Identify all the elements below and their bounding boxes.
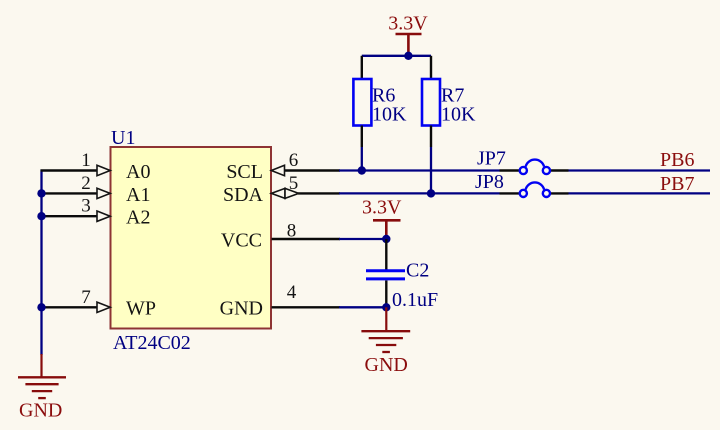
ground GND (left): bar 1 — [18, 376, 66, 378]
U1 pin 5 bidirectional arrowhead — [271, 188, 285, 198]
wire: pin1 horizontal segment — [41, 169, 99, 171]
wire: pin7 horizontal segment — [42, 306, 99, 308]
svg-text:0.1uF: 0.1uF — [392, 289, 438, 311]
ground GND (middle): red stem — [385, 307, 387, 331]
op-amp U1 body: AT24C02 IC rectangle — [111, 147, 272, 329]
svg-text:PB6: PB6 — [660, 149, 694, 171]
svg-text:2: 2 — [81, 173, 91, 194]
jumper JP7 right lead — [550, 169, 569, 171]
U1 pin 2 arrowhead (input) — [97, 188, 110, 198]
jumper JP7 left lead — [500, 169, 521, 171]
junction dot at node WP/pin7 on left bus — [37, 303, 45, 311]
ground GND (middle): bar 3 — [376, 344, 396, 346]
svg-text:7: 7 — [81, 287, 91, 308]
power 3.3V (VCC): bar symbol — [373, 219, 401, 222]
wire: SDA net horizontal from pin5 to JP8 — [339, 192, 500, 194]
jumper JP8 left lead — [500, 192, 521, 194]
svg-text:5: 5 — [289, 173, 299, 194]
power 3.3V (top): stem — [407, 34, 410, 56]
jumper JP7 right pin circle — [543, 167, 550, 174]
ground GND (left): red stem — [40, 354, 42, 377]
wire: left vertical bus from pin1 corner down to GND stem — [40, 170, 42, 356]
U1 pin 7 arrowhead (input) — [97, 302, 110, 312]
ground GND (left): bar 4 — [38, 397, 46, 399]
svg-text:A1: A1 — [126, 184, 150, 206]
ground GND (left): bar 3 — [32, 390, 52, 392]
svg-text:C2: C2 — [406, 260, 429, 282]
svg-text:10K: 10K — [441, 104, 476, 126]
svg-text:SDA: SDA — [223, 184, 264, 206]
wire: VCC net from pin8 to 3.3V node — [339, 238, 386, 240]
jumper JP8 right lead — [550, 192, 569, 194]
svg-text:A2: A2 — [126, 207, 150, 229]
wire: R6 bottom lead — [361, 126, 363, 148]
wire: SCL net horizontal from pin6 to JP7 — [339, 169, 500, 171]
svg-text:AT24C02: AT24C02 — [113, 332, 191, 354]
svg-text:JP8: JP8 — [475, 171, 504, 193]
power 3.3V (VCC): stem — [385, 220, 388, 239]
junction dot at SDA/R7 node — [427, 189, 435, 197]
svg-text:8: 8 — [287, 221, 297, 242]
svg-text:4: 4 — [287, 282, 297, 303]
svg-text:6: 6 — [289, 150, 299, 171]
wire: R7 top lead — [430, 56, 432, 80]
wire: pin3 horizontal segment — [42, 215, 99, 217]
svg-text:3: 3 — [81, 196, 91, 217]
wire: R7 to SDA net vertical (crosses SCL) — [430, 147, 432, 193]
junction dot at node A2/pin3 on left bus — [37, 212, 45, 220]
junction dot at 3.3V / resistor-top node — [404, 52, 412, 60]
svg-text:10K: 10K — [372, 104, 407, 126]
capacitor C2 bottom lead — [385, 281, 387, 308]
junction dot at GND/C2 node — [382, 303, 390, 311]
svg-text:3.3V: 3.3V — [388, 13, 428, 35]
U1 pin 1 arrowhead (input) — [97, 165, 110, 175]
svg-text:JP7: JP7 — [477, 148, 506, 170]
jumper JP8 left pin circle — [520, 190, 527, 197]
svg-text:SCL: SCL — [226, 161, 263, 183]
junction dot at node A1/pin2 on left bus — [37, 189, 45, 197]
U1 pin 6 lead (SCL) — [284, 169, 340, 171]
svg-text:PB7: PB7 — [660, 173, 694, 195]
power 3.3V (top): bar symbol — [396, 33, 422, 36]
svg-text:3.3V: 3.3V — [362, 197, 402, 219]
U1 pin 4 lead (GND) — [272, 306, 341, 308]
capacitor C2 top lead — [385, 239, 387, 270]
svg-text:WP: WP — [126, 298, 156, 320]
svg-text:GND: GND — [19, 400, 62, 422]
U1 pin 6 arrowhead (input, points to body) — [271, 165, 284, 175]
svg-text:U1: U1 — [111, 127, 135, 149]
ground GND (middle): bar 4 — [382, 351, 390, 353]
U1 pin 5 lead (SDA) — [298, 192, 340, 194]
capacitor C2 top plate — [366, 269, 405, 272]
jumper JP7 left pin circle — [520, 167, 527, 174]
svg-text:VCC: VCC — [221, 229, 262, 251]
wire: GND net from pin4 to C2 bottom node — [339, 306, 386, 308]
svg-text:A0: A0 — [126, 161, 150, 183]
jumper JP7 bridge arc — [526, 160, 545, 167]
ground GND (left): bar 2 — [25, 383, 58, 385]
U1 pin 3 arrowhead (input) — [97, 211, 110, 221]
svg-text:1: 1 — [81, 150, 91, 171]
svg-text:GND: GND — [365, 354, 408, 376]
resistor R6 body — [353, 79, 371, 126]
resistor R7 body — [422, 79, 440, 126]
wire: PB7 net from JP8 to right edge — [569, 192, 711, 194]
jumper JP8 bridge arc — [526, 182, 545, 189]
junction dot at SCL/R6 node — [358, 166, 366, 174]
wire: pin2 horizontal segment — [42, 192, 99, 194]
wire: PB6 net from JP7 to right edge — [569, 169, 711, 171]
wire: top horizontal between R6 and R7 tops — [362, 55, 431, 57]
jumper JP8 right pin circle — [543, 190, 550, 197]
ground GND (middle): bar 2 — [369, 337, 403, 339]
capacitor C2 bottom plate — [366, 277, 405, 280]
wire: R6 to SCL net vertical — [361, 147, 363, 171]
ground GND (middle): bar 1 — [361, 330, 410, 332]
wire: R6 top lead — [361, 56, 363, 80]
U1 pin 8 lead (VCC) — [272, 238, 341, 240]
svg-text:GND: GND — [220, 298, 263, 320]
wire: R7 bottom lead — [430, 126, 432, 148]
junction dot at VCC/C2 node — [382, 235, 390, 243]
